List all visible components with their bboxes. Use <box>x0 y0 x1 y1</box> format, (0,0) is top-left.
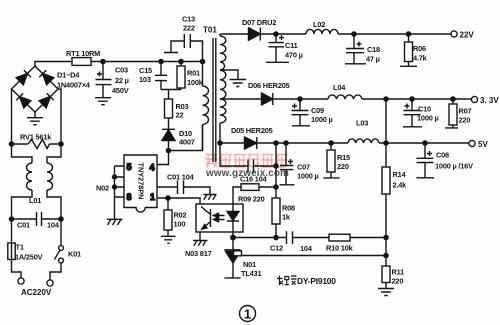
opto LED <box>232 204 234 212</box>
svg-text:C01: C01 <box>17 221 30 230</box>
diode D4 (bottom-right edge) <box>39 93 54 108</box>
diode D1 (top-left edge) <box>16 70 31 85</box>
ground (IC source, chassis) <box>107 219 123 225</box>
capacitor C11 470u <box>266 34 289 62</box>
node (drain node) <box>166 148 170 152</box>
opto light arrows <box>217 216 225 220</box>
svg-text:RT1 10RM: RT1 10RM <box>66 49 100 58</box>
svg-text:1: 1 <box>150 192 155 202</box>
svg-text:T01: T01 <box>203 26 217 35</box>
node (divider/5V junction) <box>384 141 388 145</box>
node (C09 junction) <box>298 97 302 101</box>
svg-text:C16 104: C16 104 <box>240 175 268 184</box>
svg-text:220: 220 <box>459 116 471 125</box>
wire TL431 ref to divider <box>242 255 387 257</box>
svg-text:1000 µ /16V: 1000 µ /16V <box>435 162 473 171</box>
wire left terminal to fuse <box>12 262 22 278</box>
wire 22V rail <box>220 33 249 35</box>
page mark (1) <box>240 306 256 322</box>
diode D10 4007 <box>162 118 175 129</box>
capacitor C13 222 (snubber) <box>164 34 203 62</box>
phototransistor (inside opto) <box>201 207 211 230</box>
svg-text:R01: R01 <box>187 69 200 78</box>
wire drain node to primary bottom <box>169 125 203 151</box>
terminal 22V <box>451 31 457 37</box>
node (C10 junction) <box>410 97 414 101</box>
svg-text:R08: R08 <box>282 204 295 213</box>
capacitor C01 104 (AC line) <box>12 212 62 226</box>
capacitor C10 1000u <box>403 99 422 127</box>
node (R14 top junction) <box>384 97 388 101</box>
AC220V right terminal <box>47 280 53 286</box>
svg-text:4.7k: 4.7k <box>413 54 428 63</box>
diode D07 DRU2 <box>249 28 261 40</box>
svg-text:1000 µ: 1000 µ <box>417 114 439 123</box>
svg-text:450V: 450V <box>112 86 129 95</box>
svg-text:220: 220 <box>337 162 349 171</box>
inductor L04 <box>328 95 362 99</box>
svg-text:D07 DRU2: D07 DRU2 <box>242 18 276 27</box>
svg-text:R09 220: R09 220 <box>238 195 265 204</box>
ground (bypass cap, chassis) <box>204 195 217 200</box>
svg-text:C07: C07 <box>297 163 310 172</box>
svg-text:470 µ: 470 µ <box>285 51 303 60</box>
wire 5V rail <box>220 142 245 144</box>
svg-text:C18: C18 <box>367 45 380 54</box>
svg-text:C09: C09 <box>311 106 324 115</box>
common-mode choke L01 <box>12 144 33 163</box>
wire bridge to main bus <box>35 62 72 67</box>
resistor R03 22 <box>165 99 173 118</box>
resistor R09 220 <box>233 187 241 204</box>
wire pin1 node <box>157 198 200 204</box>
svg-text:5V: 5V <box>478 140 488 149</box>
fuse T1 1A/250V <box>11 219 13 262</box>
svg-text:100: 100 <box>174 220 186 229</box>
resistor R11 220 <box>382 266 390 283</box>
diode D3 (bottom-left edge) <box>16 93 31 108</box>
varistor RV1 561k <box>12 140 62 149</box>
svg-text:N02: N02 <box>96 184 109 193</box>
ground (under C03) <box>95 98 111 105</box>
node (C08 junction) <box>423 141 427 145</box>
wire feedback row <box>233 237 287 239</box>
svg-text:1A/250V: 1A/250V <box>15 253 43 262</box>
capacitor C09 1000u <box>292 99 311 126</box>
svg-text:22 µ: 22 µ <box>115 76 129 85</box>
svg-text:C11: C11 <box>285 41 298 50</box>
svg-text:L03: L03 <box>356 119 368 128</box>
transformer T01 primary winding <box>202 62 204 87</box>
node (5V rail / secondary bottom) <box>218 141 222 145</box>
svg-text:R10 10k: R10 10k <box>326 244 354 253</box>
transformer T01 secondary winding <box>219 34 221 36</box>
switch K01 <box>59 246 64 251</box>
node (R01 junction) <box>179 59 183 63</box>
resistor R01 100k <box>180 62 182 67</box>
node (opto cathode / TL431) <box>231 235 236 240</box>
svg-text:T1: T1 <box>16 243 24 252</box>
node (ref junction) <box>384 253 388 257</box>
inductor L02 <box>306 29 338 34</box>
svg-text:103: 103 <box>139 75 151 84</box>
diode D05 HER205 <box>245 137 257 149</box>
ground (bridge bottom) <box>27 112 43 125</box>
svg-text:8: 8 <box>127 192 132 202</box>
wire right terminal to switch <box>50 263 61 280</box>
svg-text:N03 817: N03 817 <box>185 249 212 258</box>
bridge rectifier D1~D4 1N4007x4 <box>12 66 59 112</box>
wire C16/R08 vertical <box>275 143 277 198</box>
node (R10 junction) <box>384 235 388 239</box>
node (C11 junction) <box>274 32 278 36</box>
svg-text:D05 HER205: D05 HER205 <box>231 126 273 135</box>
svg-text:C03: C03 <box>115 66 128 75</box>
svg-text:4007: 4007 <box>179 138 195 147</box>
svg-text:L04: L04 <box>333 83 346 92</box>
shunt regulator N01 TL431 <box>225 238 241 250</box>
optocoupler N03 817 <box>196 204 243 232</box>
svg-text:C12: C12 <box>270 244 283 253</box>
svg-text:K01: K01 <box>68 250 81 259</box>
svg-text:5: 5 <box>127 162 132 172</box>
watermark (pink stamp) <box>205 155 289 180</box>
svg-text:C13: C13 <box>182 15 195 24</box>
svg-text:104: 104 <box>47 221 60 230</box>
svg-text:100k: 100k <box>187 78 204 87</box>
diode D06 HER205 <box>262 93 273 105</box>
svg-text:R11: R11 <box>392 268 405 277</box>
resistor R02 100 <box>167 198 169 210</box>
capacitor C16 104 (snubber across D05) <box>220 143 276 173</box>
opto emitter to ground (chassis) <box>193 232 208 246</box>
svg-text:R15: R15 <box>337 153 350 162</box>
ground (under R11) <box>378 283 394 296</box>
svg-text:D06 HER205: D06 HER205 <box>248 81 290 90</box>
IC source pin stubs <box>115 166 125 219</box>
svg-text:C15: C15 <box>139 66 152 75</box>
node (C03 junction) <box>101 59 105 63</box>
svg-text:220: 220 <box>392 277 404 286</box>
svg-text:D1~D4: D1~D4 <box>57 71 80 80</box>
svg-text:TNY278PN: TNY278PN <box>137 163 146 200</box>
IC N02 TNY278PN <box>124 155 157 212</box>
svg-text:47 µ: 47 µ <box>366 55 380 64</box>
capacitor C15 103 <box>155 62 167 90</box>
svg-text:4: 4 <box>150 163 155 173</box>
resistor R10 10k <box>329 234 350 241</box>
label board DY-PI9100 <box>277 276 297 286</box>
inductor L03 <box>348 139 379 143</box>
svg-text:N01: N01 <box>243 260 256 269</box>
svg-text:R06: R06 <box>413 44 426 53</box>
wire drain node to pin 4 <box>157 151 169 165</box>
svg-text:L01: L01 <box>29 196 41 205</box>
resistor R07 220 <box>452 99 454 104</box>
node (C07 junction) <box>284 141 288 145</box>
node (C18 junction) <box>352 32 356 36</box>
resistor R14 2.4k <box>382 167 390 194</box>
transformer T01 core <box>213 38 216 162</box>
svg-text:DY-PI9100: DY-PI9100 <box>297 276 336 286</box>
svg-text:3. 3V: 3. 3V <box>480 96 499 105</box>
terminal 3.3V <box>471 96 477 102</box>
capacitor C01 104 (bypass) <box>157 181 210 195</box>
capacitor C08 1000u/16V <box>417 143 435 178</box>
svg-text:RV1 561k: RV1 561k <box>20 133 52 142</box>
svg-text:104: 104 <box>300 244 313 253</box>
svg-text:22: 22 <box>176 111 184 120</box>
capacitor C03 22u 450V <box>96 62 112 98</box>
svg-text:1: 1 <box>244 306 251 321</box>
wire (snubber junction) <box>161 90 181 100</box>
ground (under R02) <box>161 236 176 243</box>
svg-text:R14: R14 <box>393 170 407 179</box>
svg-text:1000 µ: 1000 µ <box>311 115 333 124</box>
terminal 5V <box>469 140 475 146</box>
svg-text:1N4007×4: 1N4007×4 <box>57 81 91 90</box>
capacitor C07 1000u <box>280 143 295 185</box>
svg-text:R07: R07 <box>459 107 472 116</box>
svg-text:R02: R02 <box>174 211 187 220</box>
svg-text:1000 µ: 1000 µ <box>297 172 319 181</box>
capacitor C18 47u <box>345 34 366 64</box>
node (C16/R08 branch top) <box>274 141 278 145</box>
capacitor C12 104 <box>287 231 330 244</box>
resistor RT1 10RM <box>72 58 91 66</box>
wire divider chain <box>385 99 387 167</box>
svg-text:C08: C08 <box>436 151 449 160</box>
svg-text:TL431: TL431 <box>241 269 261 278</box>
node (C15 junction) <box>159 59 163 63</box>
svg-text:22V: 22V <box>460 31 475 40</box>
svg-text:C10: C10 <box>418 105 431 114</box>
svg-text:L02: L02 <box>313 20 325 29</box>
svg-text:AC220V: AC220V <box>21 288 52 297</box>
diode D2 (top-right edge) <box>39 70 54 85</box>
wire main DC bus <box>91 61 203 63</box>
svg-text:1k: 1k <box>282 213 291 222</box>
wire 3.3V rail from secondary tap <box>220 98 262 100</box>
AC220V left terminal <box>18 278 24 284</box>
ground (secondary center tap) <box>220 70 246 87</box>
resistor R08 1k <box>272 198 280 224</box>
node (R06 junction) <box>406 32 410 36</box>
resistor R15 220 <box>329 141 333 145</box>
svg-text:2.4k: 2.4k <box>393 181 408 190</box>
svg-text:C01 104: C01 104 <box>167 173 195 182</box>
svg-text:222: 222 <box>183 24 195 33</box>
node (R07 junction) <box>451 97 455 101</box>
resistor R06 4.7k <box>408 34 410 42</box>
